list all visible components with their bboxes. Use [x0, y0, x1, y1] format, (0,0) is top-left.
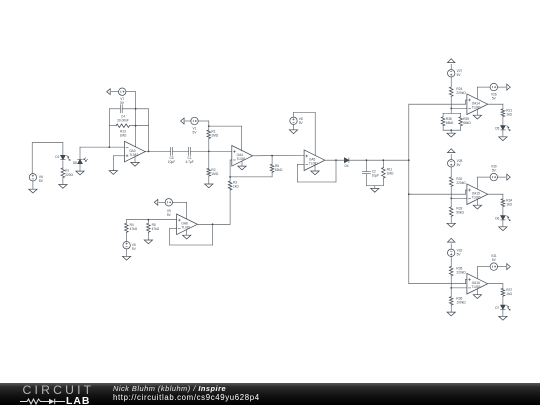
svg-text:D1: D1 — [55, 155, 59, 159]
svg-text:TL081: TL081 — [309, 161, 318, 165]
svg-text:1kΩ: 1kΩ — [506, 292, 512, 296]
svg-text:5V: 5V — [457, 73, 462, 77]
svg-text:TL081: TL081 — [129, 153, 138, 157]
svg-text:1kΩ: 1kΩ — [233, 185, 239, 189]
svg-text:10µF: 10µF — [372, 173, 379, 177]
svg-text:220kΩ: 220kΩ — [456, 91, 466, 95]
svg-text:5V: 5V — [167, 213, 172, 217]
svg-text:5V: 5V — [457, 163, 462, 167]
svg-text:5V: 5V — [299, 121, 304, 125]
svg-text:1kΩ: 1kΩ — [506, 113, 512, 117]
svg-text:TL081: TL081 — [237, 157, 246, 161]
svg-text:62kΩ: 62kΩ — [275, 168, 283, 172]
svg-text:5V: 5V — [39, 179, 44, 183]
svg-text:1MΩ: 1MΩ — [211, 134, 218, 138]
svg-text:TL081: TL081 — [472, 105, 481, 109]
svg-text:20.00nF: 20.00nF — [117, 118, 129, 122]
svg-text:5V: 5V — [193, 130, 198, 134]
svg-text:5V: 5V — [492, 97, 497, 101]
svg-text:100kΩ: 100kΩ — [456, 301, 466, 305]
svg-text:D4: D4 — [344, 164, 348, 168]
svg-text:D6: D6 — [495, 217, 499, 221]
svg-text:220kΩ: 220kΩ — [456, 181, 466, 185]
svg-text:1MΩ: 1MΩ — [211, 172, 218, 176]
svg-text:220kΩ: 220kΩ — [456, 270, 466, 274]
svg-text:4.7µF: 4.7µF — [185, 160, 193, 164]
svg-text:5V: 5V — [492, 168, 497, 172]
svg-text:47kΩ: 47kΩ — [130, 227, 138, 231]
svg-text:1MΩ: 1MΩ — [120, 134, 127, 138]
svg-text:50kΩ: 50kΩ — [456, 211, 464, 215]
svg-text:5V: 5V — [132, 247, 137, 251]
svg-text:1kΩ: 1kΩ — [506, 203, 512, 207]
svg-text:1MΩ: 1MΩ — [387, 172, 394, 176]
svg-text:68kΩ: 68kΩ — [463, 121, 471, 125]
svg-text:TL081: TL081 — [472, 195, 481, 199]
svg-text:220Ω: 220Ω — [65, 173, 73, 177]
svg-text:5V: 5V — [457, 253, 462, 257]
svg-text:TL081: TL081 — [181, 226, 190, 230]
svg-text:D8: D8 — [73, 161, 77, 165]
svg-text:D5: D5 — [495, 127, 499, 131]
svg-text:D7: D7 — [495, 306, 499, 310]
svg-text:5V: 5V — [492, 258, 497, 262]
svg-text:10µF: 10µF — [168, 160, 175, 164]
svg-text:TL081: TL081 — [472, 285, 481, 289]
svg-text:47kΩ: 47kΩ — [152, 227, 160, 231]
svg-text:68kΩ: 68kΩ — [446, 121, 454, 125]
svg-text:5V: 5V — [120, 101, 125, 105]
